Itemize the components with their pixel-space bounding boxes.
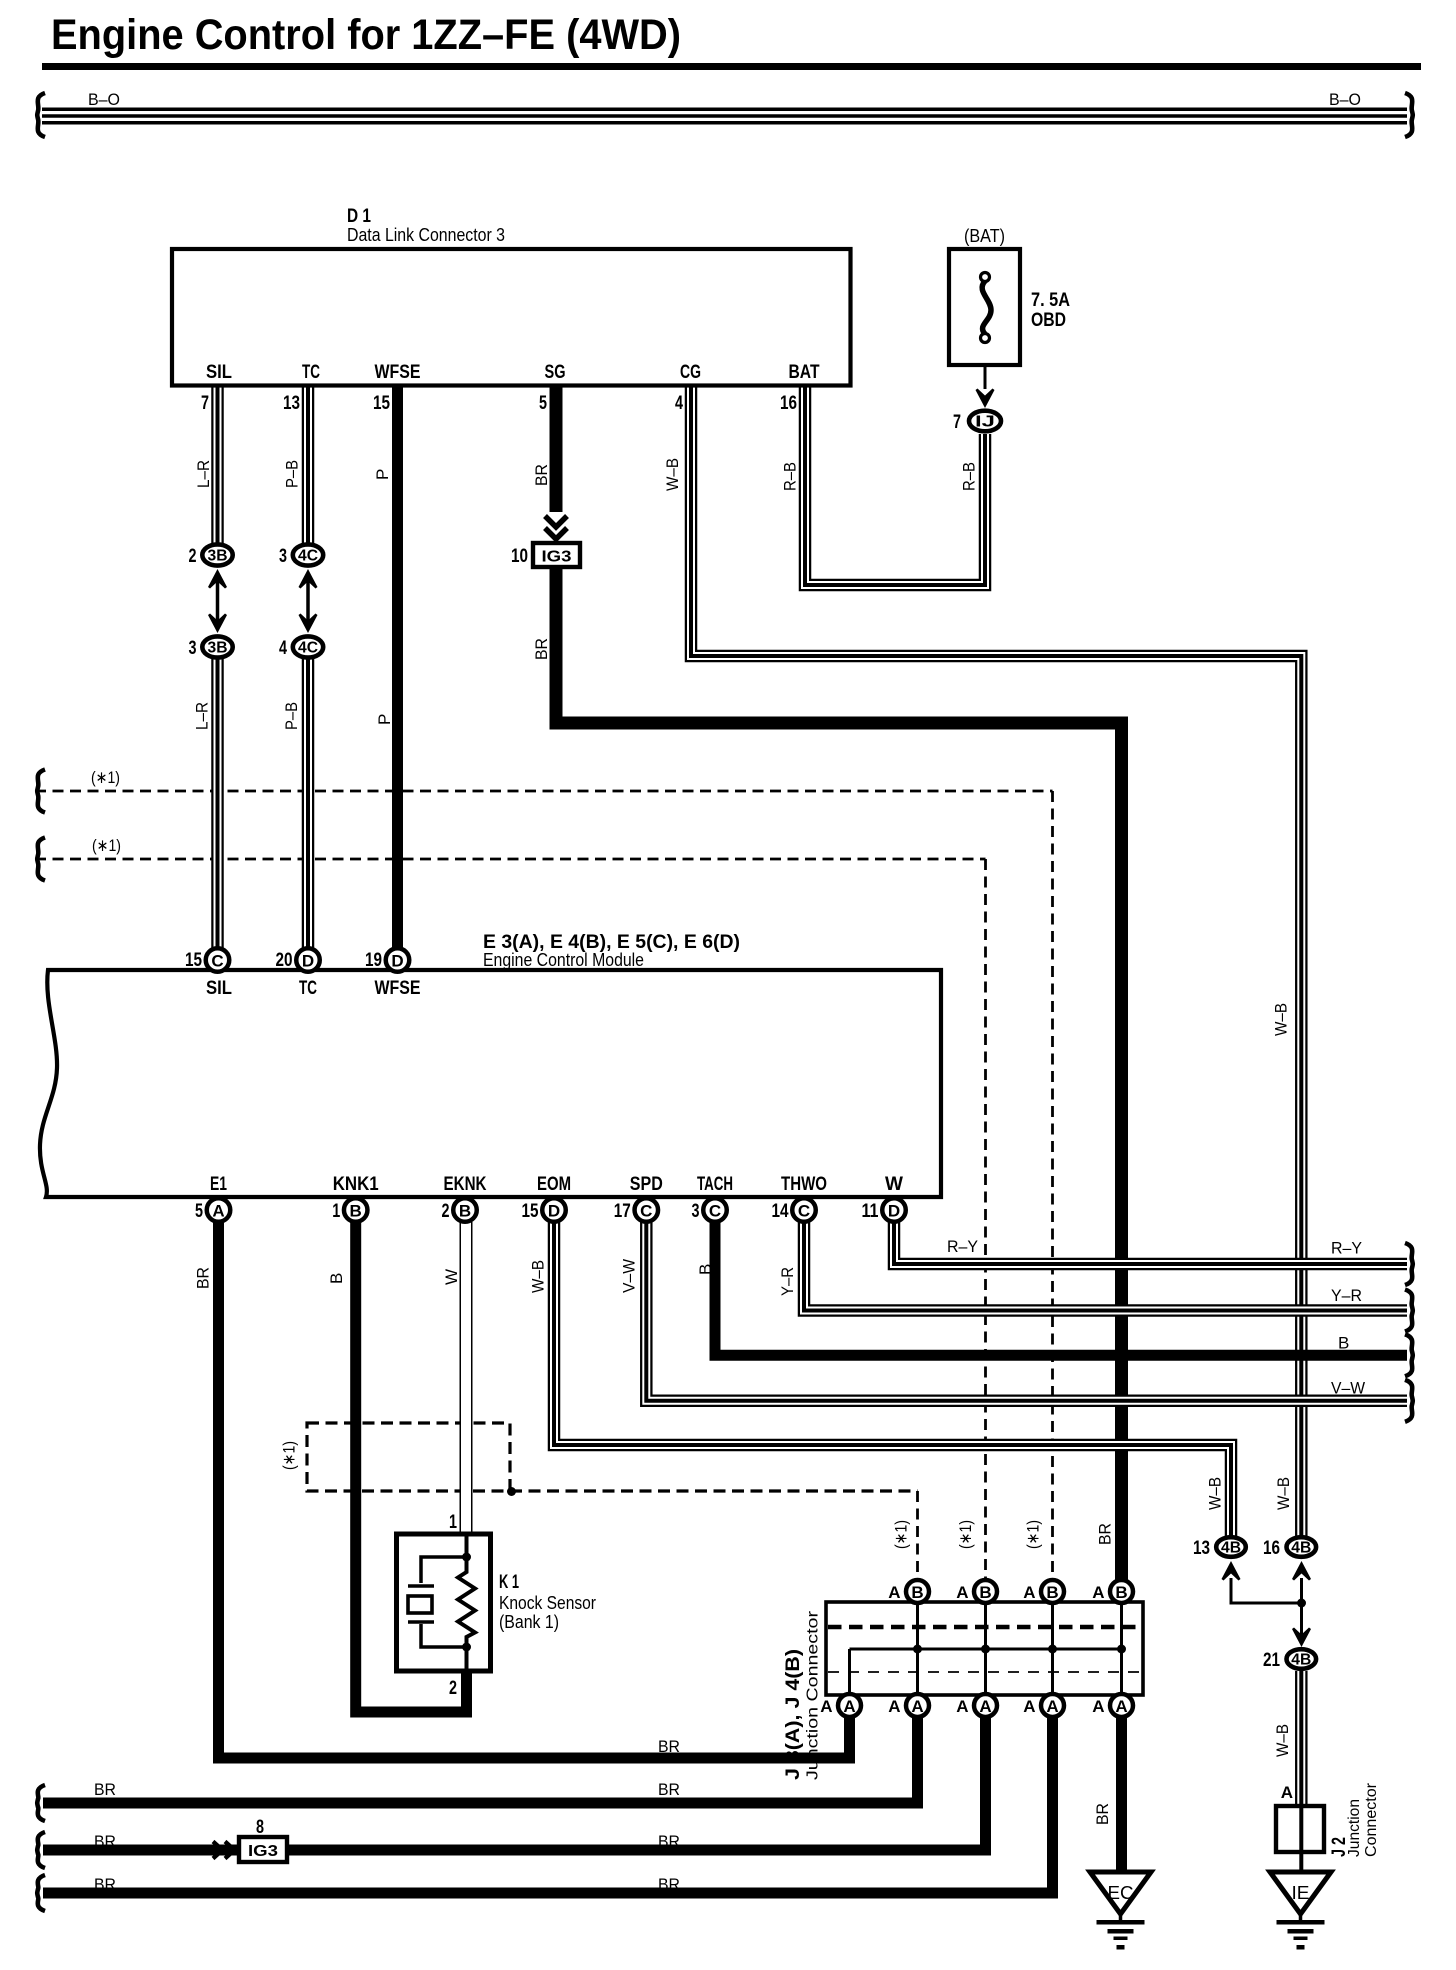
svg-text:Junction: Junction (1346, 1799, 1363, 1857)
svg-text:W–B: W–B (529, 1260, 548, 1293)
svg-text:3: 3 (692, 1201, 700, 1222)
svg-text:A: A (956, 1583, 968, 1602)
svg-text:C: C (211, 952, 223, 971)
svg-text:D: D (888, 1202, 900, 1221)
svg-text:2: 2 (449, 1678, 457, 1699)
svg-text:BR: BR (658, 1737, 680, 1756)
svg-text:SPD: SPD (630, 1174, 663, 1195)
svg-text:A: A (888, 1583, 900, 1602)
svg-text:A: A (1023, 1697, 1035, 1716)
svg-text:Knock Sensor: Knock Sensor (499, 1593, 596, 1613)
svg-text:5: 5 (195, 1201, 203, 1222)
svg-text:1: 1 (332, 1201, 340, 1222)
svg-text:A: A (1046, 1697, 1058, 1716)
svg-text:EKNK: EKNK (444, 1174, 487, 1195)
svg-text:B–O: B–O (88, 90, 120, 109)
svg-text:WFSE: WFSE (375, 978, 421, 999)
svg-text:W–B: W–B (1274, 1477, 1293, 1510)
svg-text:TC: TC (302, 362, 320, 383)
svg-text:4C: 4C (298, 548, 318, 565)
svg-text:11: 11 (862, 1201, 879, 1222)
svg-text:D: D (391, 952, 403, 971)
svg-text:4C: 4C (298, 640, 318, 657)
svg-text:(∗1): (∗1) (1024, 1520, 1043, 1549)
svg-text:CG: CG (680, 362, 701, 383)
svg-text:BR: BR (1093, 1803, 1112, 1825)
svg-text:R–Y: R–Y (947, 1237, 978, 1256)
svg-text:16: 16 (780, 393, 797, 414)
svg-text:4B: 4B (1291, 1540, 1311, 1557)
svg-text:D: D (302, 952, 314, 971)
svg-text:W–B: W–B (1206, 1477, 1225, 1510)
svg-text:7. 5A: 7. 5A (1031, 290, 1070, 311)
svg-text:19: 19 (365, 950, 382, 971)
svg-text:Junction Connector: Junction Connector (805, 1610, 822, 1780)
svg-text:21: 21 (1263, 1650, 1280, 1671)
svg-text:Data Link Connector 3: Data Link Connector 3 (347, 225, 505, 245)
svg-text:Engine Control for 1ZZ–FE (4WD: Engine Control for 1ZZ–FE (4WD) (51, 11, 681, 59)
svg-text:V–W: V–W (620, 1259, 639, 1293)
svg-text:A: A (1092, 1583, 1104, 1602)
svg-text:EOM: EOM (537, 1174, 571, 1195)
svg-text:4B: 4B (1221, 1540, 1241, 1557)
svg-text:BR: BR (532, 638, 551, 660)
svg-text:C: C (798, 1202, 810, 1221)
svg-text:7: 7 (953, 412, 961, 433)
svg-text:BR: BR (658, 1832, 680, 1851)
svg-text:P–B: P–B (283, 460, 302, 488)
svg-text:17: 17 (614, 1201, 631, 1222)
svg-text:D 1: D 1 (347, 206, 371, 227)
svg-text:2: 2 (442, 1201, 450, 1222)
svg-text:(∗1): (∗1) (956, 1520, 975, 1549)
svg-text:Y–R: Y–R (1331, 1286, 1362, 1305)
svg-text:P–B: P–B (282, 702, 301, 730)
svg-text:D: D (548, 1202, 560, 1221)
svg-text:L–R: L–R (194, 460, 213, 488)
svg-text:A: A (843, 1697, 855, 1716)
svg-text:C: C (709, 1202, 721, 1221)
svg-text:EC: EC (1108, 1883, 1134, 1903)
svg-text:A: A (1281, 1783, 1293, 1802)
svg-text:BR: BR (94, 1875, 116, 1894)
svg-text:BAT: BAT (789, 362, 820, 383)
svg-text:BR: BR (658, 1875, 680, 1894)
svg-text:15: 15 (522, 1201, 539, 1222)
svg-text:16: 16 (1263, 1538, 1280, 1559)
svg-text:TACH: TACH (697, 1174, 733, 1195)
svg-text:(∗1): (∗1) (92, 836, 121, 855)
svg-text:Engine Control Module: Engine Control Module (483, 950, 644, 970)
svg-text:C: C (640, 1202, 652, 1221)
svg-text:20: 20 (276, 950, 293, 971)
svg-text:Y–R: Y–R (778, 1267, 797, 1296)
svg-text:KNK1: KNK1 (333, 1174, 379, 1195)
svg-text:W: W (885, 1174, 903, 1195)
svg-text:A: A (956, 1697, 968, 1716)
svg-text:B: B (696, 1264, 715, 1275)
svg-text:SIL: SIL (206, 978, 232, 999)
svg-text:L–R: L–R (193, 702, 212, 730)
svg-text:3B: 3B (208, 548, 228, 565)
svg-text:4B: 4B (1291, 1652, 1311, 1669)
svg-text:BR: BR (94, 1832, 116, 1851)
svg-text:SIL: SIL (206, 362, 232, 383)
svg-text:B: B (979, 1583, 991, 1602)
svg-text:SG: SG (545, 362, 566, 383)
svg-text:W: W (442, 1269, 461, 1285)
svg-text:10: 10 (511, 546, 528, 567)
svg-text:B–O: B–O (1329, 90, 1361, 109)
svg-text:B: B (327, 1273, 346, 1284)
svg-text:A: A (888, 1697, 900, 1716)
svg-text:B: B (1046, 1583, 1058, 1602)
svg-text:R–Y: R–Y (1331, 1239, 1362, 1258)
svg-text:(∗1): (∗1) (91, 768, 120, 787)
svg-text:B: B (350, 1202, 362, 1221)
svg-text:J 3(A), J 4(B): J 3(A), J 4(B) (783, 1649, 804, 1780)
svg-text:K 1: K 1 (499, 1572, 519, 1593)
svg-text:3: 3 (189, 638, 197, 659)
svg-text:A: A (1023, 1583, 1035, 1602)
svg-text:(∗1): (∗1) (892, 1520, 911, 1549)
svg-text:Connector: Connector (1363, 1782, 1380, 1857)
svg-text:E1: E1 (210, 1174, 227, 1195)
svg-text:W–B: W–B (1273, 1724, 1292, 1757)
svg-text:3B: 3B (208, 640, 228, 657)
svg-text:R–B: R–B (960, 462, 979, 491)
svg-text:7: 7 (201, 393, 209, 414)
svg-text:13: 13 (1193, 1538, 1210, 1559)
svg-text:WFSE: WFSE (375, 362, 421, 383)
svg-text:IJ: IJ (975, 414, 995, 431)
svg-text:13: 13 (283, 393, 300, 414)
svg-text:IE: IE (1292, 1883, 1310, 1903)
svg-text:(BAT): (BAT) (964, 226, 1005, 246)
svg-text:TC: TC (299, 978, 317, 999)
svg-text:A: A (212, 1202, 224, 1221)
svg-text:R–B: R–B (781, 462, 800, 491)
svg-text:A: A (979, 1697, 991, 1716)
svg-text:15: 15 (373, 393, 390, 414)
svg-text:V–W: V–W (1331, 1379, 1365, 1398)
svg-text:BR: BR (194, 1267, 213, 1289)
svg-text:5: 5 (539, 393, 547, 414)
svg-text:BR: BR (94, 1780, 116, 1799)
svg-text:A: A (820, 1697, 832, 1716)
svg-text:14: 14 (772, 1201, 789, 1222)
svg-text:IG3: IG3 (248, 1843, 278, 1860)
svg-text:IG3: IG3 (542, 549, 572, 566)
svg-text:BR: BR (658, 1780, 680, 1799)
svg-text:A: A (1092, 1697, 1104, 1716)
svg-text:4: 4 (675, 393, 683, 414)
svg-text:(Bank 1): (Bank 1) (499, 1612, 559, 1632)
svg-text:3: 3 (279, 546, 287, 567)
svg-text:A: A (911, 1697, 923, 1716)
svg-text:(∗1): (∗1) (280, 1441, 299, 1470)
svg-text:OBD: OBD (1031, 310, 1066, 331)
svg-text:B: B (1115, 1583, 1127, 1602)
svg-text:BR: BR (1096, 1523, 1115, 1545)
svg-text:1: 1 (449, 1512, 457, 1533)
svg-text:P: P (373, 469, 392, 480)
svg-text:8: 8 (256, 1817, 264, 1838)
svg-text:BR: BR (532, 464, 551, 486)
svg-text:W–B: W–B (1272, 1003, 1291, 1036)
svg-text:A: A (1115, 1697, 1127, 1716)
svg-text:B: B (459, 1202, 471, 1221)
svg-text:P: P (375, 714, 394, 725)
svg-text:B: B (911, 1583, 923, 1602)
svg-text:B: B (1338, 1334, 1349, 1353)
svg-text:2: 2 (189, 546, 197, 567)
svg-text:15: 15 (185, 950, 202, 971)
svg-text:THWO: THWO (781, 1174, 827, 1195)
svg-text:W–B: W–B (663, 458, 682, 491)
svg-text:4: 4 (279, 638, 287, 659)
